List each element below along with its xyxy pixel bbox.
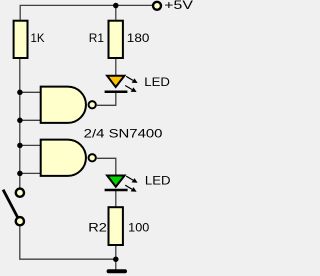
- wire switch to bottom node: [20, 226, 116, 259]
- NAND gate U1B: [41, 140, 86, 176]
- supply terminal +5V: [153, 2, 161, 10]
- node gate1 input1: [17, 90, 23, 96]
- resistor 1K: [14, 21, 28, 58]
- wire bottom node to ground: [115, 259, 117, 269]
- wire left bus vertical: [19, 59, 21, 188]
- wire top horizontal +5V rail: [20, 5, 152, 19]
- LED D1 amber: [105, 76, 138, 92]
- resistor R1: [109, 21, 123, 58]
- svg-text:100: 100: [128, 220, 149, 234]
- svg-text:+5V: +5V: [164, 0, 193, 12]
- wire gate1 input 1: [19, 91, 40, 93]
- svg-text:180: 180: [127, 31, 150, 45]
- wire R2 to bottom node: [115, 246, 117, 259]
- node gate2 input1: [17, 143, 23, 149]
- node gate2 input2: [17, 171, 23, 177]
- svg-text:2/4 SN7400: 2/4 SN7400: [84, 127, 163, 141]
- switch SW1 contact top: [16, 189, 24, 197]
- wire gate2 input 1: [19, 144, 40, 146]
- wire LED1 cathode to gate1 output: [97, 93, 116, 105]
- wire R1 to LED1 anode: [115, 59, 117, 75]
- switch SW1 contact bottom: [16, 217, 24, 225]
- svg-text:R2: R2: [88, 220, 107, 234]
- wire gate2 output to LED2 anode: [97, 158, 116, 175]
- node bottom junction: [113, 256, 119, 262]
- svg-text:LED: LED: [144, 75, 170, 89]
- resistor R2: [109, 207, 123, 245]
- svg-text:R1: R1: [89, 31, 105, 45]
- svg-text:LED: LED: [145, 174, 171, 188]
- ground: [109, 269, 125, 273]
- node gate1 input2: [17, 118, 23, 124]
- wire gate1 input 2: [19, 119, 40, 121]
- wire R1 drop from rail: [115, 5, 117, 19]
- NAND gate U1A: [41, 87, 86, 123]
- wire gate2 input 2: [19, 172, 40, 174]
- svg-text:1K: 1K: [31, 31, 45, 45]
- node junction top rail: [113, 3, 119, 9]
- wire LED2 cathode to R2: [115, 190, 117, 207]
- LED D2 green: [105, 176, 138, 192]
- switch SW1 lever: [3, 190, 17, 217]
